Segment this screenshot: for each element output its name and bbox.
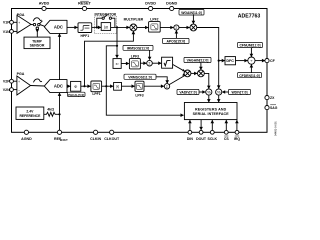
svg-text:PGA: PGA [17,13,25,17]
pin DVDD [145,2,156,11]
svg-text:AVDD: AVDD [39,2,50,6]
register VRMSOS [124,74,169,84]
wire PGA2 to ADC2 [31,85,45,88]
filter LPF3 ch1 [129,55,140,69]
pin V2N [3,88,14,92]
pin DIN [187,130,194,140]
wire sigma vrms to mult VA [169,76,184,85]
svg-text:+: + [18,80,20,84]
abs block [114,83,122,91]
wire sigma to wgain mult [179,26,190,30]
wire wgain to dfc column [197,28,219,89]
pin CF [265,59,276,64]
mux switch ch1 [33,21,42,26]
pin AVDD [39,2,50,11]
wire IRQ [235,120,239,131]
svg-text:CFDEN[11:0]: CFDEN[11:0] [239,74,260,78]
pin ZX [265,96,275,101]
node ch2 lpf1 out [105,85,107,87]
svg-text:DIN: DIN [187,137,194,141]
wire VADIV to registers [207,95,211,102]
svg-text:LPF2: LPF2 [150,17,158,21]
wire integrator to multiplier [111,26,130,30]
wire HPF1 to integrator [92,26,102,30]
svg-text:Φ: Φ [74,84,77,89]
node ref junction [58,113,60,115]
wire LPF2 to sigma1t [160,26,174,30]
svg-text:V1N: V1N [3,30,10,34]
wire into DFC [219,59,225,63]
svg-text:04481-0-001: 04481-0-001 [274,121,278,136]
svg-text:SAG: SAG [270,106,278,110]
pin IRQ [234,130,241,140]
svg-text:DOUT: DOUT [196,137,207,141]
wire sigma to sqrt [152,61,161,65]
ADC U1 channel1 [44,20,67,33]
wire ADC1 to HPF1 [67,26,78,30]
svg-text:CS: CS [224,137,230,141]
register WDIV [222,89,251,94]
svg-text:SCLK: SCLK [208,137,218,141]
wire mult VA to mult VAGAIN [191,72,198,76]
svg-text:+: + [18,21,20,25]
svg-text:VADIV[7:0]: VADIV[7:0] [179,91,196,95]
register WGAIN [179,10,204,25]
analog signal squiggle ch2 [34,79,42,82]
wire CS [225,120,229,131]
node bypass tap [96,26,98,28]
register IRMSOS [123,45,153,60]
pin REFin/out [54,130,68,142]
temp sensor block [24,37,50,49]
summer VRMS [164,84,169,89]
svg-text:ZX: ZX [270,96,275,100]
svg-text:WGAIN[11:0]: WGAIN[11:0] [181,11,202,15]
register CFNUM [238,43,263,58]
filter LPF1 [91,81,102,96]
svg-text:VRMSOS[11:0]: VRMSOS[11:0] [128,75,152,79]
wire x2 to LPF3a [121,62,129,66]
resistor 4k [44,108,60,117]
block registers serial interface [184,103,237,120]
wire switch to ADC1 [40,25,44,27]
register VADIV [177,89,206,94]
pin CLKOUT [104,130,120,141]
switch integrator bypass [102,15,111,20]
pin DGND [166,2,177,11]
multiplier [124,17,144,31]
divider VADIV [206,89,212,95]
wire divider to CF pin [255,59,265,63]
wire WDIV to registers [217,95,221,102]
VRMS IRMS multiplier [184,70,191,77]
wire DFC to divider [236,59,248,63]
pin AGND [21,130,32,141]
wire DOUT [199,120,203,131]
pin V1P [3,20,13,24]
svg-text:V2N: V2N [3,88,10,92]
multiplier VAGAIN [198,70,205,77]
svg-text:−: − [18,88,20,92]
block DFC [225,57,236,65]
divider WDIV [216,85,222,95]
multiplier WGAIN [190,24,197,31]
svg-text:%: % [217,90,221,95]
node waveform branch [116,26,118,28]
wire sqrt to mult VA [173,64,185,71]
wire SCLK [211,120,215,131]
divider CF [248,57,255,64]
wire LPF1 to abs [102,84,114,88]
svg-text:HPF1: HPF1 [80,34,89,38]
pin CLKIN [90,130,101,141]
analog signal squiggle ch1 [33,18,41,21]
pin V1N [3,30,14,34]
register CFDEN [238,64,262,78]
phase cal block [71,81,81,91]
temp sensor switch throw [36,27,40,37]
sqrt block [162,57,173,68]
wire LPF3b to sigma vrms [144,84,164,88]
svg-text:IRMSOS[11:0]: IRMSOS[11:0] [127,47,149,51]
wire DIN [188,120,192,131]
wire ch2 to multiplier [85,31,136,86]
svg-text:−: − [18,30,20,34]
svg-text:PHCAL[5:0]: PHCAL[5:0] [68,93,84,97]
summer energy [174,25,179,30]
svg-text:LPF3: LPF3 [131,55,139,59]
node waveform reg tap [116,45,118,47]
ADC U2 channel2 [44,80,67,93]
svg-text:LPF1: LPF1 [92,92,100,96]
svg-text:CLKOUT: CLKOUT [104,137,120,141]
pin SCLK [208,130,218,140]
node dfc tap [218,60,220,62]
wire PGA1 to switch [31,24,33,26]
svg-text:WDIV[7:0]: WDIV[7:0] [231,91,247,95]
wire V2P to PGA2 [13,80,17,82]
wire ref to ADC2 [58,93,62,115]
svg-text:PGA: PGA [17,72,25,76]
svg-text:|x|: |x| [116,85,119,89]
register PHCAL [68,92,86,97]
svg-text:4kΩ: 4kΩ [47,108,54,112]
chip border [12,9,268,133]
node ch2 tap [83,85,85,87]
wire abs to LPF3b [122,84,135,88]
svg-text:DGND: DGND [166,2,177,6]
pin CS [224,130,230,140]
svg-text:∫dt: ∫dt [103,25,108,29]
svg-text:APOS[15:0]: APOS[15:0] [166,40,185,44]
op-amp PGA1 [17,13,31,34]
wire phcal to LPF1 [81,84,91,88]
svg-text:AGND: AGND [21,137,32,141]
svg-text:ADE7763: ADE7763 [238,14,261,20]
svg-text:SENSOR: SENSOR [30,44,45,48]
integrator block [101,23,110,31]
svg-text:IRQ: IRQ [234,137,241,141]
svg-text:REFERENCE: REFERENCE [19,114,41,118]
svg-text:LPF3: LPF3 [135,94,143,98]
svg-text:V1P: V1P [3,21,10,25]
wire LPF3a to sigma irms [140,61,146,65]
wire ADC2 to phcal [67,84,71,88]
wire waveform branch down to x2 [115,27,119,58]
filter LPF2 [149,17,161,32]
svg-text:CLKIN: CLKIN [90,137,101,141]
svg-text:DFC: DFC [226,59,234,63]
svg-text:CF: CF [270,59,276,63]
svg-text:DVDD: DVDD [145,2,156,6]
wire V2N to PGA2 [13,89,17,91]
register APOS [163,30,190,43]
wire V1P to PGA1 [13,21,17,23]
integrator dashed box [95,13,117,34]
pin SAG [265,105,278,110]
wire ref to ADC1 [58,33,62,79]
wire integrator bypass [97,18,115,27]
block x squared [113,59,121,69]
wire ref pin [59,114,61,130]
svg-text:MULTIPLIER: MULTIPLIER [124,17,144,21]
op-amp PGA2 [17,72,31,95]
svg-text:%: % [207,90,211,95]
reference block 2.4V [16,107,44,119]
wire vagain mult to vadiv [204,73,210,89]
pin V2P [3,79,13,83]
filter LPF3 ch2 [135,81,144,97]
svg-text:ADC: ADC [54,84,63,89]
svg-text:ADC: ADC [54,25,63,30]
summer IRMS [147,60,153,66]
svg-text:V2P: V2P [3,80,10,84]
wire V1N to PGA1 [13,30,17,32]
wire multiplier to LPF2 [137,26,149,30]
svg-text:VAGAIN[11:0]: VAGAIN[11:0] [187,59,209,63]
svg-text:SERIAL INTERFACE: SERIAL INTERFACE [193,112,230,116]
register VAGAIN [184,57,211,70]
svg-text:RESET: RESET [78,2,91,6]
svg-text:CFNUM[11:0]: CFNUM[11:0] [239,44,260,48]
pin DOUT [196,130,207,140]
pin RESET [78,1,91,10]
svg-text:IN/OUT: IN/OUT [60,140,68,142]
svg-text:REGISTERS AND: REGISTERS AND [195,107,227,111]
filter HPF1 [78,23,92,38]
wire waveform to registers [106,46,184,117]
